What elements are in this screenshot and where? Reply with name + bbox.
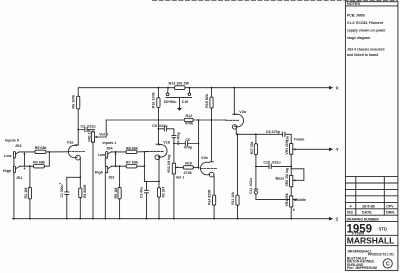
svg-text:JS3: JS3 bbox=[15, 144, 22, 148]
wire R7 riser and C3 drop bbox=[143, 152, 145, 182]
resistor R10 bbox=[183, 166, 193, 169]
svg-text:R6 100k: R6 100k bbox=[72, 94, 76, 109]
svg-text:470p: 470p bbox=[184, 145, 193, 149]
title block text bbox=[347, 2, 396, 270]
svg-text:MARSHALL: MARSHALL bbox=[347, 237, 395, 246]
wire HT top rail right segment with arrow to X bbox=[185, 87, 329, 89]
jack JS1 High input II bbox=[13, 166, 15, 173]
resistor R6 bbox=[77, 96, 80, 109]
wire V2a cathode row bbox=[236, 129, 291, 144]
wire ground bus with arrow to 2 bbox=[13, 218, 330, 220]
svg-text:VR2 1M log: VR2 1M log bbox=[167, 155, 171, 173]
svg-text:R10: R10 bbox=[185, 161, 192, 165]
table column dividers bbox=[356, 177, 385, 216]
svg-text:Treble: Treble bbox=[294, 138, 305, 142]
wire bass to middle bbox=[290, 187, 292, 196]
resistor R1 bbox=[29, 165, 31, 167]
svg-text:DATE: DATE bbox=[362, 211, 372, 215]
svg-text:R15 82k: R15 82k bbox=[205, 93, 209, 108]
svg-text:R1 1M: R1 1M bbox=[24, 188, 28, 199]
resistor R3 bbox=[157, 188, 160, 197]
svg-text:R8 68k: R8 68k bbox=[126, 146, 139, 150]
svg-text:V1b: V1b bbox=[163, 140, 171, 144]
svg-text:PRODUCTS LTD.: PRODUCTS LTD. bbox=[368, 253, 395, 257]
svg-text:470k: 470k bbox=[185, 122, 194, 126]
svg-text:V2b: V2b bbox=[201, 156, 209, 160]
svg-text:+: + bbox=[59, 182, 61, 186]
capacitor C11 bbox=[254, 166, 258, 189]
svg-text:V1-2: ECC83. Filament: V1-2: ECC83. Filament bbox=[347, 21, 384, 25]
resistor R14 bbox=[213, 195, 216, 205]
potentiometer VR1 bbox=[91, 132, 94, 142]
wire C1 connector bbox=[67, 176, 81, 178]
tube V1b bbox=[158, 145, 167, 157]
resistor R11 bbox=[237, 134, 239, 218]
svg-text:VR5 1M log: VR5 1M log bbox=[285, 168, 289, 186]
svg-text:Bass: Bass bbox=[276, 177, 285, 181]
svg-text:50+50u: 50+50u bbox=[164, 100, 177, 104]
jack 1 switch contact bbox=[115, 154, 117, 167]
svg-text:R7 68k: R7 68k bbox=[126, 161, 139, 165]
potentiometer VR4 middle bbox=[290, 196, 293, 207]
wire treble to bass bbox=[290, 154, 292, 175]
svg-text:18-5-88: 18-5-88 bbox=[362, 204, 375, 208]
jack JS3 Low input II bbox=[13, 152, 15, 159]
svg-text:V1a: V1a bbox=[67, 140, 75, 144]
svg-text:FY6309: FY6309 bbox=[352, 232, 364, 236]
svg-text:6: 6 bbox=[293, 208, 295, 212]
wire mixer line to V2a grid bbox=[106, 119, 226, 121]
wire Low 1 row bbox=[111, 151, 147, 153]
svg-text:VR3 220k: VR3 220k bbox=[285, 139, 289, 154]
wire V1a cathode bbox=[79, 158, 81, 219]
resistor R12 bbox=[184, 118, 193, 121]
scan edge artifact top bbox=[152, 0, 398, 2]
svg-text:C11 .022u: C11 .022u bbox=[249, 178, 253, 194]
wire C3 connector bbox=[144, 180, 159, 182]
svg-text:Vol 1: Vol 1 bbox=[176, 176, 185, 180]
wire input II sleeve to ground bbox=[13, 158, 15, 219]
svg-text:Low: Low bbox=[4, 154, 12, 158]
svg-text:DRAWING NUMBER: DRAWING NUMBER bbox=[347, 218, 380, 222]
svg-text:and linked to board: and linked to board bbox=[347, 53, 378, 57]
svg-text:STD: STD bbox=[379, 227, 387, 232]
wire VR2 output riser bbox=[198, 120, 200, 169]
svg-text:NOTES: NOTES bbox=[347, 2, 361, 6]
svg-text:Low: Low bbox=[98, 153, 106, 157]
svg-text:PCB: JM80: PCB: JM80 bbox=[347, 13, 365, 17]
capacitor C10 can plate bbox=[166, 98, 192, 108]
capacitor C10 can 50+50u pads bbox=[168, 88, 190, 93]
resistor R9 1M grid leak ch1 bbox=[119, 165, 121, 167]
node ch1 tick dots bbox=[115, 151, 117, 153]
svg-text:supply shown on power: supply shown on power bbox=[347, 29, 386, 33]
svg-text:JS2: JS2 bbox=[108, 176, 115, 180]
resistor R7 bbox=[126, 165, 137, 168]
svg-text:C3 40u: C3 40u bbox=[139, 187, 143, 198]
wire V1b cathode bbox=[158, 158, 160, 219]
capacitor C8 bbox=[282, 132, 285, 136]
capacitor C10 tone bbox=[256, 164, 291, 168]
table row lines bbox=[345, 177, 398, 216]
capacitor C1 bbox=[65, 177, 69, 218]
resistor R15 bbox=[211, 88, 213, 120]
svg-text:JS3 4 chassis mounted: JS3 4 chassis mounted bbox=[347, 47, 385, 51]
ground under C10 bbox=[177, 108, 182, 111]
capacitor C4 bbox=[172, 135, 176, 163]
svg-text:JS1: JS1 bbox=[16, 176, 23, 180]
svg-text:R13 10k 2W: R13 10k 2W bbox=[169, 82, 190, 86]
wire input 1 sleeve to ground bbox=[104, 158, 106, 219]
svg-text:Inputs 1: Inputs 1 bbox=[103, 141, 117, 145]
wire HT top rail left segment bbox=[78, 88, 174, 97]
drawing number band line bbox=[345, 222, 398, 246]
jack JS2 High input 1 bbox=[106, 166, 108, 173]
wire Low II row bbox=[20, 151, 69, 153]
node rail junction dots bbox=[158, 87, 160, 89]
jack II switch contact bbox=[23, 154, 25, 167]
resistor R17 bbox=[255, 134, 257, 166]
resistor R8 bbox=[126, 150, 137, 153]
svg-text:C1 320u: C1 320u bbox=[60, 184, 64, 197]
capacitor C6 bbox=[173, 143, 175, 145]
svg-text:ISS: ISS bbox=[347, 211, 353, 215]
svg-text:R12: R12 bbox=[186, 114, 193, 118]
svg-text:File: JMPPREGUM: File: JMPPREGUM bbox=[347, 266, 377, 270]
svg-text:R5 68k: R5 68k bbox=[35, 146, 48, 150]
svg-text:Vol II: Vol II bbox=[99, 133, 108, 137]
svg-text:R3 2k7: R3 2k7 bbox=[162, 186, 166, 197]
resistor R2 bbox=[33, 165, 44, 168]
svg-text:R16 100k: R16 100k bbox=[152, 91, 156, 108]
svg-text:C8 470p: C8 470p bbox=[266, 130, 281, 134]
resistor R4 bbox=[79, 188, 82, 198]
potentiometer VR2 bbox=[172, 163, 175, 174]
svg-text:C2 .022u: C2 .022u bbox=[81, 125, 97, 129]
capacitor C3 bbox=[145, 181, 149, 218]
tube V2a bbox=[234, 114, 243, 127]
svg-text:DRN.: DRN. bbox=[386, 211, 395, 215]
svg-text:R14 820R: R14 820R bbox=[208, 189, 212, 205]
svg-text:VR1 1M: VR1 1M bbox=[87, 129, 91, 141]
svg-text:C10: C10 bbox=[182, 100, 189, 104]
svg-text:stage diagram.: stage diagram. bbox=[347, 36, 371, 40]
svg-text:C: C bbox=[386, 261, 390, 267]
svg-text:2: 2 bbox=[336, 217, 339, 222]
tube V1a bbox=[68, 145, 77, 157]
title block frame bbox=[345, 2, 398, 271]
capacitor C5 bbox=[158, 128, 160, 130]
svg-text:C6: C6 bbox=[185, 138, 190, 142]
schematic text labels bbox=[3, 82, 340, 222]
potentiometer VR5 bass bbox=[290, 175, 293, 186]
svg-text:R9 1M: R9 1M bbox=[114, 188, 118, 199]
svg-text:High: High bbox=[95, 171, 104, 175]
resistor R5 bbox=[35, 150, 46, 153]
svg-text:Middle: Middle bbox=[294, 198, 306, 202]
svg-text:CPV: CPV bbox=[386, 204, 394, 208]
svg-text:C5 .022u: C5 .022u bbox=[152, 124, 168, 128]
jack JS4 Low input 1 bbox=[106, 152, 108, 159]
svg-text:JS4: JS4 bbox=[106, 147, 114, 151]
wire High II row bbox=[20, 152, 50, 166]
node ground bus junctions bbox=[13, 218, 15, 220]
svg-text:V2a: V2a bbox=[239, 110, 247, 114]
svg-text:Y: Y bbox=[336, 147, 339, 152]
svg-text:R17 33k: R17 33k bbox=[250, 141, 254, 154]
svg-text:VR4 25k: VR4 25k bbox=[285, 193, 289, 206]
svg-text:R11 10k: R11 10k bbox=[231, 192, 235, 205]
copyright circle bbox=[383, 259, 392, 268]
svg-text:Inputs II: Inputs II bbox=[5, 139, 19, 143]
wire V2b cathode bbox=[213, 176, 215, 219]
svg-text:C4 400p: C4 400p bbox=[176, 132, 180, 145]
resistor R16 bbox=[157, 88, 159, 98]
resistor R13 bbox=[175, 86, 186, 90]
svg-text:R4 820R: R4 820R bbox=[83, 184, 87, 198]
notes header underline bbox=[345, 5, 398, 7]
svg-text:High: High bbox=[3, 169, 12, 173]
svg-text:R2 68k: R2 68k bbox=[33, 161, 46, 165]
wire High 1 row bbox=[111, 165, 144, 167]
potentiometer VR3 treble bbox=[290, 144, 293, 155]
capacitor C2 bbox=[77, 129, 79, 131]
svg-text:C10 .022u: C10 .022u bbox=[263, 160, 281, 164]
tube V2b bbox=[200, 162, 209, 175]
svg-text:470k: 470k bbox=[184, 171, 193, 175]
